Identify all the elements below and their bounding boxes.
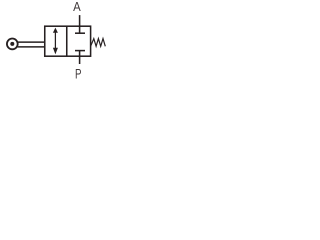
arrow head down (53, 48, 58, 55)
arrow shaft (54, 31, 56, 49)
blocked port T top stub (79, 26, 81, 33)
blocked port T bottom stub (79, 51, 81, 57)
stem upper wire (18, 41, 45, 43)
port P wire (79, 56, 81, 64)
port A wire (79, 15, 81, 26)
position divider (66, 26, 68, 56)
roller actuator circle (7, 39, 18, 50)
svg-text:P: P (75, 67, 82, 80)
valve body outline (45, 26, 91, 56)
arrow head up (53, 28, 58, 33)
svg-text:A: A (73, 0, 81, 14)
blocked port T top bar (75, 32, 85, 34)
stem lower wire (18, 46, 45, 48)
return spring (91, 39, 106, 47)
blocked port T bottom bar (75, 50, 85, 52)
roller axle dot (10, 42, 14, 46)
